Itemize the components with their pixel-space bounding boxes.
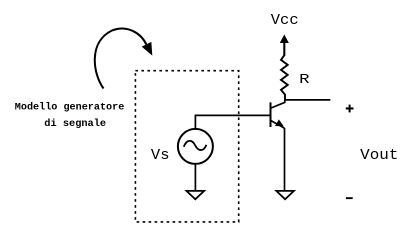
transistor Q1 (NPN) [271,100,285,128]
label - (output negative) [346,197,353,199]
wire: collector to output (+) [285,99,330,101]
voltage source Vs (AC source circle with sine) [178,129,213,164]
svg-text:R: R [299,72,310,88]
svg-text:Modello generatore: Modello generatore [15,101,125,113]
resistor R [281,43,288,100]
svg-text:di segnale: di segnale [44,118,106,130]
wire: emitter to ground [284,128,286,190]
label + (output positive) [346,105,354,113]
wire: source top to transistor base [195,115,270,128]
wire: source bottom to ground [194,164,196,190]
svg-text:Vout: Vout [360,147,398,164]
svg-text:Vs: Vs [151,148,170,164]
Vcc power arrow [280,34,289,56]
svg-text:Vcc: Vcc [271,13,299,29]
ground (emitter) [276,191,294,199]
dashed box (signal generator model boundary) [135,71,238,222]
curved arrow pointing to dashed box [95,29,152,89]
label: Modello generatore di segnale [15,101,125,130]
ground (signal source) [187,191,205,199]
